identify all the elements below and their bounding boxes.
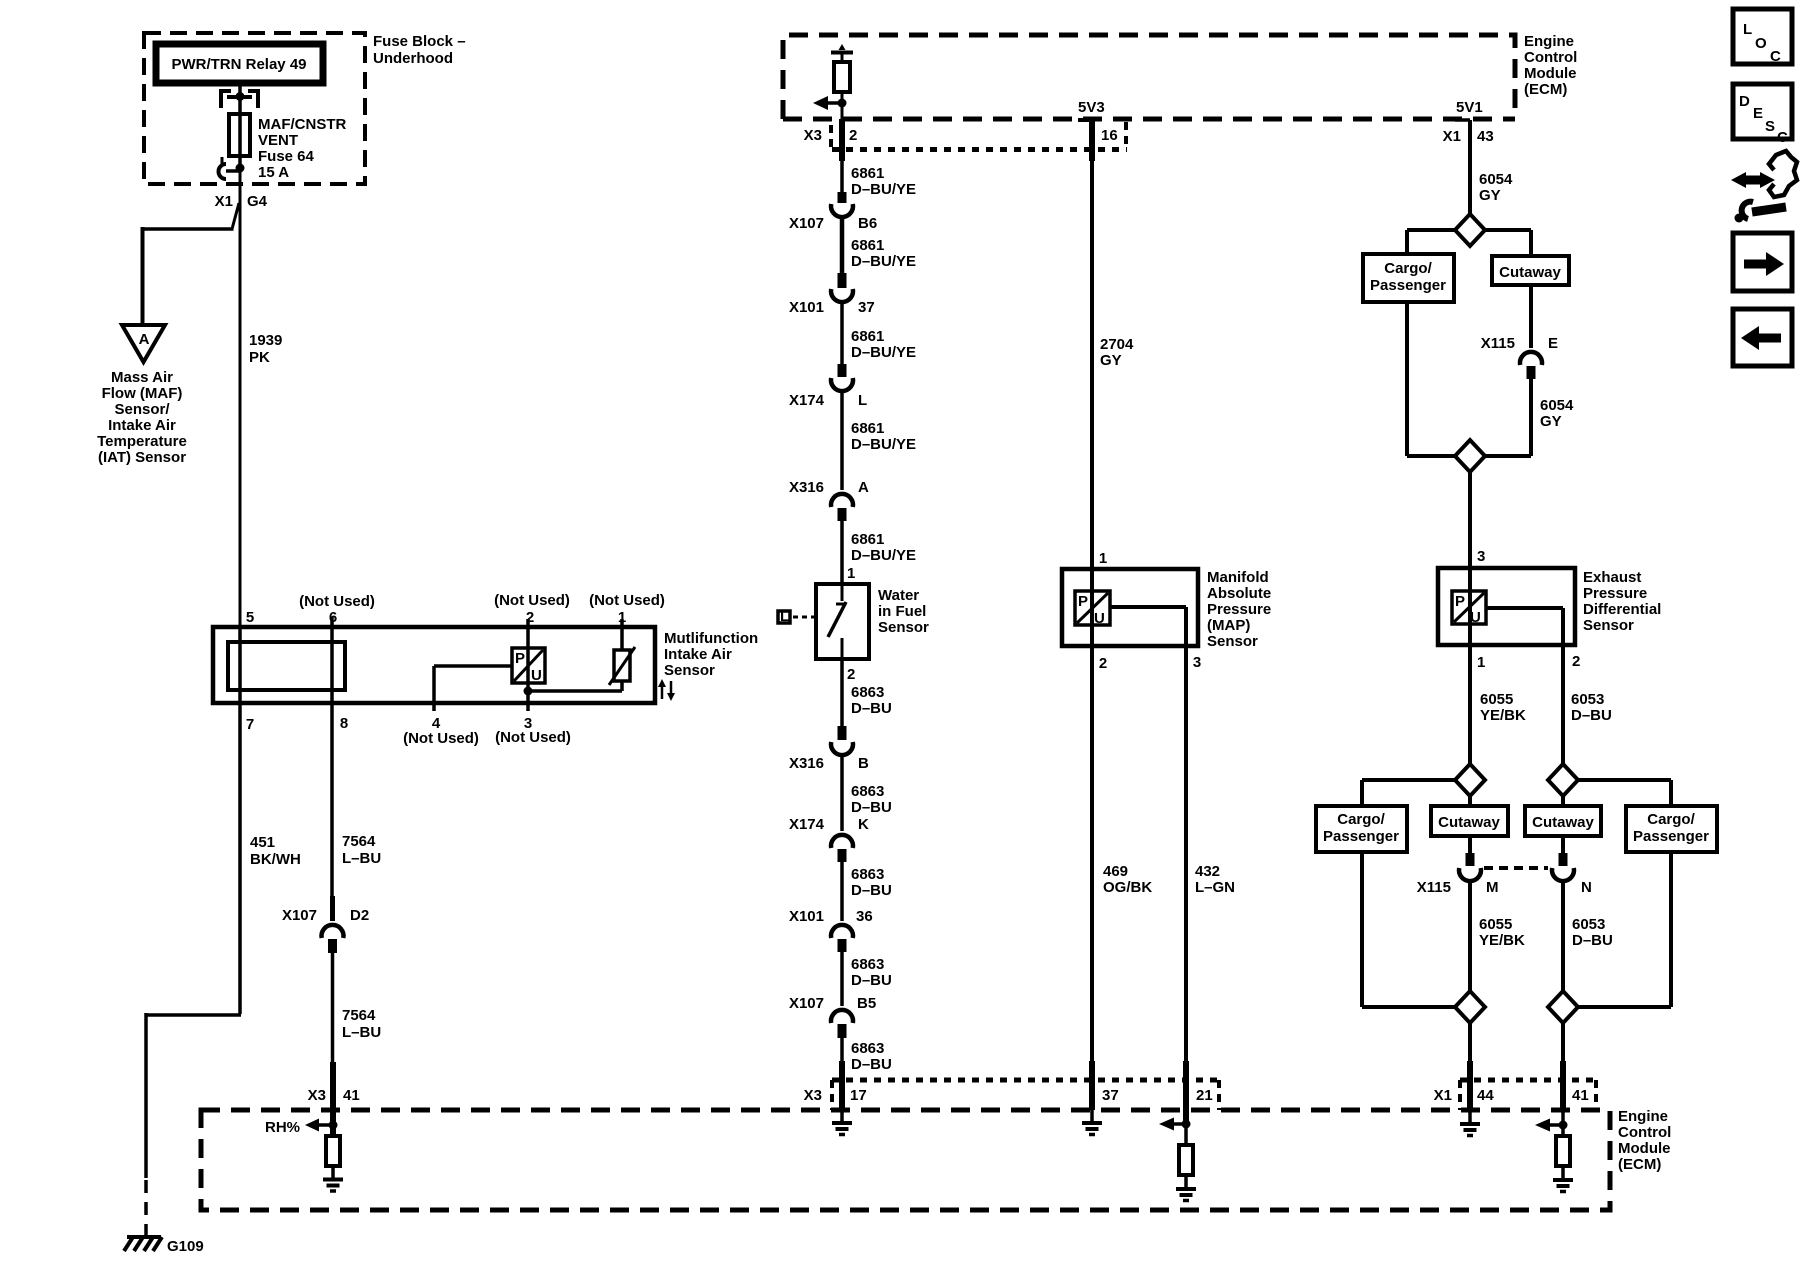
svg-text:(IAT) Sensor: (IAT) Sensor bbox=[98, 449, 186, 466]
svg-text:K: K bbox=[858, 816, 869, 833]
svg-text:6863: 6863 bbox=[851, 956, 884, 973]
svg-text:Mass Air: Mass Air bbox=[111, 369, 173, 386]
svg-text:Mutlifunction: Mutlifunction bbox=[664, 630, 758, 647]
svg-text:X1: X1 bbox=[1443, 128, 1461, 145]
svg-text:Sensor: Sensor bbox=[1207, 633, 1258, 650]
svg-text:X174: X174 bbox=[789, 392, 825, 409]
svg-text:X115: X115 bbox=[1481, 335, 1515, 352]
svg-text:(Not Used): (Not Used) bbox=[494, 592, 570, 609]
svg-text:D: D bbox=[1739, 93, 1750, 110]
svg-text:2: 2 bbox=[1099, 655, 1107, 672]
svg-text:X174: X174 bbox=[789, 816, 825, 833]
svg-text:Fuse 64: Fuse 64 bbox=[258, 148, 315, 165]
svg-text:Pressure: Pressure bbox=[1207, 601, 1271, 618]
svg-text:B5: B5 bbox=[857, 995, 876, 1012]
svg-text:15 A: 15 A bbox=[258, 164, 289, 181]
svg-text:L: L bbox=[1743, 21, 1752, 38]
svg-text:6861: 6861 bbox=[851, 420, 884, 437]
svg-text:GY: GY bbox=[1540, 413, 1562, 430]
svg-text:6863: 6863 bbox=[851, 783, 884, 800]
svg-text:1: 1 bbox=[618, 609, 626, 626]
svg-text:S: S bbox=[1765, 118, 1775, 135]
svg-text:D–BU: D–BU bbox=[851, 972, 892, 989]
svg-text:X316: X316 bbox=[789, 755, 824, 772]
svg-text:2: 2 bbox=[1572, 653, 1580, 670]
svg-text:1: 1 bbox=[1477, 654, 1485, 671]
svg-text:Manifold: Manifold bbox=[1207, 569, 1269, 586]
svg-text:Sensor/: Sensor/ bbox=[114, 401, 170, 418]
svg-text:6054: 6054 bbox=[1479, 171, 1513, 188]
svg-text:1: 1 bbox=[1099, 550, 1107, 567]
svg-text:21: 21 bbox=[1196, 1087, 1213, 1104]
svg-text:A: A bbox=[139, 331, 150, 348]
svg-text:X3: X3 bbox=[804, 1087, 822, 1104]
svg-text:VENT: VENT bbox=[258, 132, 298, 149]
svg-text:PWR/TRN Relay 49: PWR/TRN Relay 49 bbox=[171, 56, 306, 73]
svg-text:(Not Used): (Not Used) bbox=[495, 729, 571, 746]
svg-text:6861: 6861 bbox=[851, 328, 884, 345]
svg-text:L: L bbox=[858, 392, 867, 409]
svg-text:41: 41 bbox=[1572, 1087, 1589, 1104]
svg-text:6861: 6861 bbox=[851, 165, 884, 182]
svg-text:BK/WH: BK/WH bbox=[250, 851, 301, 868]
svg-text:U: U bbox=[1094, 610, 1105, 627]
svg-text:X1: X1 bbox=[215, 193, 233, 210]
svg-text:D–BU/YE: D–BU/YE bbox=[851, 253, 916, 270]
svg-text:P: P bbox=[1455, 593, 1465, 610]
svg-text:6055: 6055 bbox=[1480, 691, 1513, 708]
svg-text:C: C bbox=[1770, 48, 1781, 65]
svg-text:6054: 6054 bbox=[1540, 397, 1574, 414]
svg-text:C: C bbox=[1777, 129, 1788, 146]
svg-text:L–GN: L–GN bbox=[1195, 879, 1235, 896]
svg-text:Cutaway: Cutaway bbox=[1499, 264, 1561, 281]
svg-text:Cutaway: Cutaway bbox=[1532, 814, 1594, 831]
svg-text:2704: 2704 bbox=[1100, 336, 1134, 353]
svg-text:L: L bbox=[780, 608, 789, 625]
svg-text:Cutaway: Cutaway bbox=[1438, 814, 1500, 831]
svg-text:3: 3 bbox=[1477, 548, 1485, 565]
svg-text:6863: 6863 bbox=[851, 1040, 884, 1057]
svg-text:L–BU: L–BU bbox=[342, 1024, 381, 1041]
svg-text:44: 44 bbox=[1477, 1087, 1494, 1104]
svg-text:5V3: 5V3 bbox=[1078, 99, 1105, 116]
svg-text:B6: B6 bbox=[858, 215, 877, 232]
svg-text:GY: GY bbox=[1100, 352, 1122, 369]
svg-text:U: U bbox=[1470, 609, 1481, 626]
svg-text:43: 43 bbox=[1477, 128, 1494, 145]
svg-text:D–BU: D–BU bbox=[851, 1056, 892, 1073]
svg-text:X107: X107 bbox=[789, 995, 824, 1012]
svg-text:Underhood: Underhood bbox=[373, 50, 453, 67]
svg-text:Sensor: Sensor bbox=[878, 619, 929, 636]
svg-text:6053: 6053 bbox=[1572, 916, 1605, 933]
svg-text:PK: PK bbox=[249, 349, 270, 366]
svg-text:7: 7 bbox=[246, 716, 254, 733]
svg-text:2: 2 bbox=[526, 609, 534, 626]
svg-text:432: 432 bbox=[1195, 863, 1220, 880]
svg-text:D–BU/YE: D–BU/YE bbox=[851, 181, 916, 198]
svg-text:Pressure: Pressure bbox=[1583, 585, 1647, 602]
svg-text:D–BU/YE: D–BU/YE bbox=[851, 547, 916, 564]
svg-text:O: O bbox=[1755, 35, 1767, 52]
svg-text:Sensor: Sensor bbox=[664, 662, 715, 679]
svg-text:Differential: Differential bbox=[1583, 601, 1661, 618]
svg-text:X107: X107 bbox=[789, 215, 824, 232]
svg-text:7564: 7564 bbox=[342, 1007, 376, 1024]
svg-text:P: P bbox=[1078, 593, 1088, 610]
svg-text:Engine: Engine bbox=[1524, 33, 1574, 50]
svg-text:2: 2 bbox=[849, 127, 857, 144]
svg-text:in Fuel: in Fuel bbox=[878, 603, 926, 620]
svg-text:Passenger: Passenger bbox=[1633, 828, 1709, 845]
svg-text:MAF/CNSTR: MAF/CNSTR bbox=[258, 116, 346, 133]
svg-text:Passenger: Passenger bbox=[1323, 828, 1399, 845]
svg-text:Flow (MAF): Flow (MAF) bbox=[102, 385, 183, 402]
svg-text:YE/BK: YE/BK bbox=[1480, 707, 1526, 724]
svg-text:41: 41 bbox=[343, 1087, 360, 1104]
svg-text:X101: X101 bbox=[789, 908, 824, 925]
svg-text:469: 469 bbox=[1103, 863, 1128, 880]
svg-text:5V1: 5V1 bbox=[1456, 99, 1483, 116]
svg-text:D–BU/YE: D–BU/YE bbox=[851, 344, 916, 361]
svg-text:2: 2 bbox=[847, 666, 855, 683]
svg-text:G4: G4 bbox=[247, 193, 268, 210]
svg-text:A: A bbox=[858, 479, 869, 496]
svg-text:6861: 6861 bbox=[851, 237, 884, 254]
svg-text:P: P bbox=[515, 650, 525, 667]
svg-text:Sensor: Sensor bbox=[1583, 617, 1634, 634]
svg-text:37: 37 bbox=[1102, 1087, 1119, 1104]
svg-text:6863: 6863 bbox=[851, 684, 884, 701]
svg-text:Water: Water bbox=[878, 587, 919, 604]
svg-text:7564: 7564 bbox=[342, 833, 376, 850]
svg-text:X1: X1 bbox=[1434, 1087, 1452, 1104]
svg-text:U: U bbox=[531, 667, 542, 684]
svg-text:RH%: RH% bbox=[265, 1119, 300, 1136]
svg-text:OG/BK: OG/BK bbox=[1103, 879, 1152, 896]
svg-text:E: E bbox=[1753, 105, 1763, 122]
svg-text:D–BU: D–BU bbox=[1572, 932, 1613, 949]
svg-text:YE/BK: YE/BK bbox=[1479, 932, 1525, 949]
svg-text:(Not Used): (Not Used) bbox=[589, 592, 665, 609]
svg-text:1: 1 bbox=[847, 565, 855, 582]
svg-text:Cargo/: Cargo/ bbox=[1647, 811, 1695, 828]
svg-text:(MAP): (MAP) bbox=[1207, 617, 1250, 634]
svg-text:X3: X3 bbox=[804, 127, 822, 144]
svg-text:6863: 6863 bbox=[851, 866, 884, 883]
svg-text:X115: X115 bbox=[1417, 879, 1451, 896]
svg-text:M: M bbox=[1486, 879, 1499, 896]
svg-text:X107: X107 bbox=[282, 907, 317, 924]
svg-text:Cargo/: Cargo/ bbox=[1337, 811, 1385, 828]
svg-text:E: E bbox=[1548, 335, 1558, 352]
svg-text:D–BU/YE: D–BU/YE bbox=[851, 436, 916, 453]
svg-text:Absolute: Absolute bbox=[1207, 585, 1271, 602]
svg-text:D–BU: D–BU bbox=[1571, 707, 1612, 724]
svg-text:(Not Used): (Not Used) bbox=[299, 593, 375, 610]
svg-text:D–BU: D–BU bbox=[851, 882, 892, 899]
svg-text:Control: Control bbox=[1524, 49, 1577, 66]
svg-text:D2: D2 bbox=[350, 907, 369, 924]
svg-text:X101: X101 bbox=[789, 299, 824, 316]
svg-text:N: N bbox=[1581, 879, 1592, 896]
svg-text:Module: Module bbox=[1524, 65, 1577, 82]
svg-text:Module: Module bbox=[1618, 1140, 1671, 1157]
svg-text:6055: 6055 bbox=[1479, 916, 1512, 933]
svg-text:B: B bbox=[858, 755, 869, 772]
svg-text:D–BU: D–BU bbox=[851, 799, 892, 816]
svg-text:36: 36 bbox=[856, 908, 873, 925]
svg-text:5: 5 bbox=[246, 609, 254, 626]
svg-text:Exhaust: Exhaust bbox=[1583, 569, 1641, 586]
svg-text:Intake Air: Intake Air bbox=[108, 417, 176, 434]
svg-text:D–BU: D–BU bbox=[851, 700, 892, 717]
svg-text:(ECM): (ECM) bbox=[1524, 81, 1567, 98]
svg-text:16: 16 bbox=[1101, 127, 1118, 144]
svg-text:Intake Air: Intake Air bbox=[664, 646, 732, 663]
svg-text:Engine: Engine bbox=[1618, 1108, 1668, 1125]
svg-text:Cargo/: Cargo/ bbox=[1384, 260, 1432, 277]
svg-text:Fuse Block –: Fuse Block – bbox=[373, 33, 466, 50]
svg-text:1939: 1939 bbox=[249, 332, 282, 349]
svg-text:G109: G109 bbox=[167, 1238, 204, 1255]
svg-text:X3: X3 bbox=[308, 1087, 326, 1104]
svg-text:6053: 6053 bbox=[1571, 691, 1604, 708]
svg-text:(ECM): (ECM) bbox=[1618, 1156, 1661, 1173]
svg-text:Control: Control bbox=[1618, 1124, 1671, 1141]
svg-text:(Not Used): (Not Used) bbox=[403, 730, 479, 747]
svg-text:Passenger: Passenger bbox=[1370, 277, 1446, 294]
svg-text:37: 37 bbox=[858, 299, 875, 316]
svg-text:GY: GY bbox=[1479, 187, 1501, 204]
svg-text:6: 6 bbox=[329, 609, 337, 626]
svg-text:451: 451 bbox=[250, 834, 275, 851]
svg-text:3: 3 bbox=[1193, 654, 1201, 671]
svg-text:6861: 6861 bbox=[851, 531, 884, 548]
svg-text:17: 17 bbox=[850, 1087, 867, 1104]
svg-text:X316: X316 bbox=[789, 479, 824, 496]
svg-text:Temperature: Temperature bbox=[97, 433, 187, 450]
svg-text:L–BU: L–BU bbox=[342, 850, 381, 867]
svg-text:8: 8 bbox=[340, 715, 348, 732]
